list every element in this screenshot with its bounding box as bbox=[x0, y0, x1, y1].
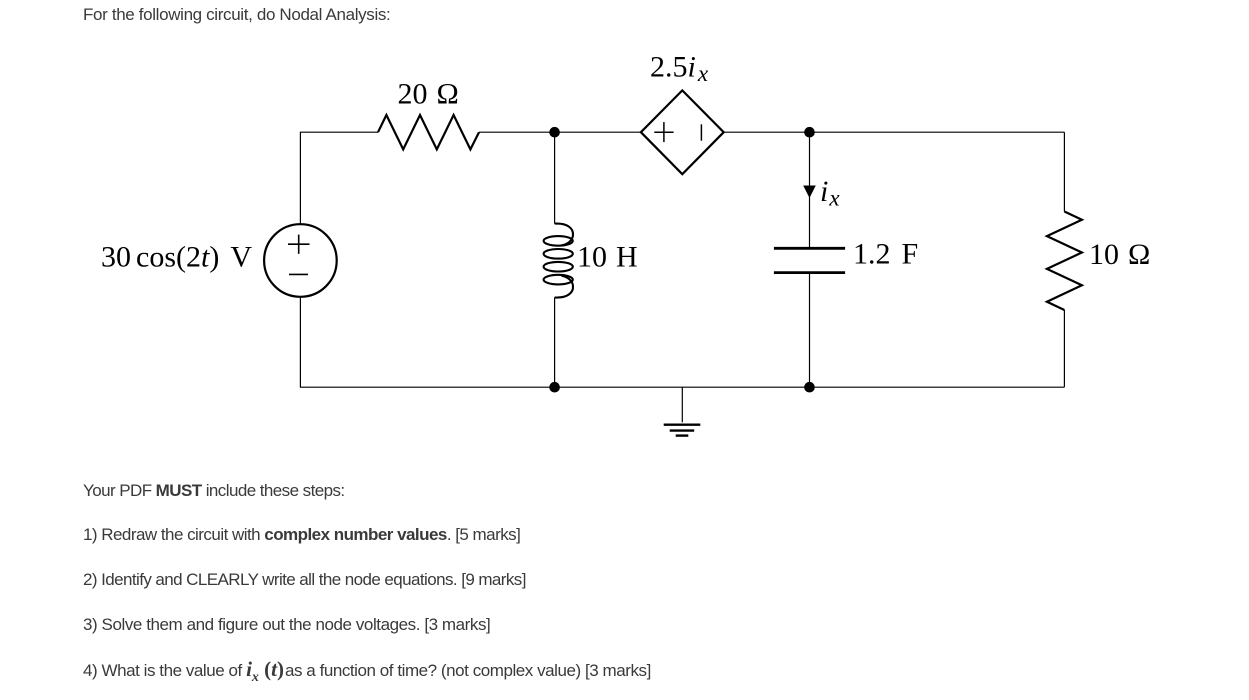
resistor 20ohm zigzag bbox=[378, 115, 479, 149]
svg-text:10H: 10H bbox=[577, 240, 638, 273]
svg-text:30cos(2t)V: 30cos(2t)V bbox=[101, 240, 252, 273]
current arrow ix bbox=[803, 186, 816, 199]
wire ground stem bbox=[681, 387, 683, 422]
instructions list bbox=[83, 481, 345, 501]
ground symbol bbox=[664, 425, 701, 436]
voltage source minus sign bbox=[289, 273, 308, 275]
node dot bottom-right junction bbox=[804, 382, 815, 393]
svg-text:20Ω: 20Ω bbox=[398, 77, 459, 110]
svg-text:ix: ix bbox=[820, 175, 840, 211]
diamond minus sign (vertical bar) bbox=[700, 124, 702, 140]
inductor 10H coil bbox=[544, 224, 573, 298]
wire capacitor branch upper bbox=[809, 132, 811, 248]
svg-text:1.2F: 1.2F bbox=[853, 238, 918, 271]
node dot top-left junction bbox=[549, 127, 560, 138]
node dot bottom-left junction bbox=[549, 382, 560, 393]
wire bottom: full bottom rail bbox=[300, 297, 1064, 387]
svg-text:2.5ix: 2.5ix bbox=[650, 51, 709, 87]
capacitor 1.2F plates bbox=[774, 248, 845, 272]
wire inductor branch upper bbox=[554, 132, 556, 223]
voltage source V1 circle bbox=[264, 224, 337, 297]
wire top-right: diamond to right corner bbox=[724, 131, 1065, 133]
wire top-left: left corner to resistor bbox=[300, 132, 378, 224]
diamond plus sign bbox=[654, 122, 673, 142]
dependent source U1 diamond bbox=[641, 90, 724, 174]
circuit schematic bbox=[0, 0, 1249, 460]
node dot top-right junction bbox=[804, 127, 815, 138]
svg-text:10Ω: 10Ω bbox=[1089, 238, 1150, 271]
resistor 10ohm zigzag (right) bbox=[1047, 212, 1082, 311]
wire right side lower: resistor to bottom corner bbox=[1063, 310, 1065, 387]
voltage source plus sign bbox=[288, 235, 310, 254]
top instruction text bbox=[83, 5, 390, 25]
wire capacitor branch lower bbox=[809, 273, 811, 388]
wire inductor branch lower bbox=[554, 298, 556, 388]
wire right side upper: corner to 10ohm resistor bbox=[1063, 132, 1065, 211]
wire top-mid: resistor to diamond bbox=[479, 131, 641, 133]
